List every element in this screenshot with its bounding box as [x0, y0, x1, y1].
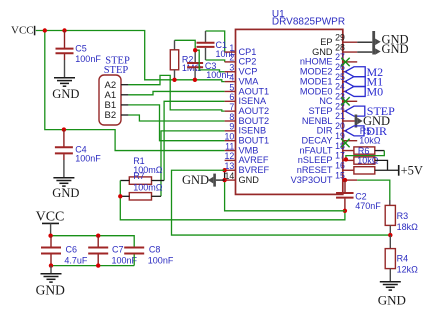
junction C6 bottom [49, 263, 53, 267]
resistor R2 [170, 50, 201, 73]
U1 right pins 15-29 [291, 32, 358, 185]
capacitor C8 lead bottom [133, 255, 135, 266]
net label STEP 1 [105, 56, 130, 67]
svg-text:20: 20 [335, 121, 345, 131]
capacitor C3 [187, 61, 232, 80]
resistor R4 [385, 249, 418, 275]
svg-text:STEP: STEP [104, 65, 129, 76]
svg-text:DIR: DIR [317, 126, 333, 136]
capacitor C4 lead bottom [63, 154, 65, 177]
ground bottom cluster [36, 274, 65, 298]
+5V port [399, 164, 423, 178]
wire sense resistors to ground net [120, 181, 345, 220]
resistor R7 lead left [120, 195, 129, 197]
junction C7 top [96, 234, 100, 238]
svg-text:24: 24 [335, 82, 345, 92]
svg-text:GND: GND [312, 47, 333, 57]
svg-text:MODE1: MODE1 [300, 76, 333, 86]
connector pin A1 [105, 90, 129, 101]
svg-text:18kΩ: 18kΩ [397, 222, 419, 232]
svg-text:nHOME: nHOME [300, 57, 333, 67]
wire nRESET to +5V [375, 169, 399, 171]
wire nSLEEP resistor to +5V net [375, 160, 388, 170]
svg-text:NC: NC [319, 96, 333, 106]
svg-text:8: 8 [229, 112, 234, 122]
VCC port (top left) [11, 25, 35, 37]
svg-text:GND: GND [239, 175, 260, 185]
capacitor C7 [88, 245, 137, 266]
svg-text:CP2: CP2 [239, 57, 257, 67]
svg-text:+5V: +5V [401, 164, 423, 178]
svg-text:BOUT1: BOUT1 [239, 136, 270, 146]
svg-text:M0: M0 [367, 85, 384, 99]
wire B1 to BOUT1 [128, 105, 224, 141]
junction C4 top [62, 127, 66, 131]
svg-text:GND: GND [52, 186, 79, 200]
svg-text:100mΩ: 100mΩ [133, 183, 163, 193]
ground under C5 [52, 78, 79, 101]
svg-text:C8: C8 [149, 245, 161, 255]
svg-text:nSLEEP: nSLEEP [298, 155, 333, 165]
capacitor C1 [197, 40, 237, 59]
resistor R1 label [133, 156, 163, 175]
capacitor C3 lead bottom [194, 68, 196, 80]
junction C7 bottom [96, 263, 100, 267]
svg-text:28: 28 [335, 42, 345, 52]
resistor R4 lead top [389, 235, 391, 249]
resistor R1 lead left [120, 180, 129, 182]
capacitor C2 lead top [344, 180, 346, 192]
svg-text:C7: C7 [112, 245, 124, 255]
port M1 [345, 75, 383, 89]
no-connect NC [341, 97, 349, 105]
connector pin B1 [105, 100, 129, 111]
resistor R1 [129, 177, 151, 184]
svg-text:C5: C5 [75, 44, 87, 54]
wire GND pin14 to C2 bottom [225, 180, 345, 211]
wire R2 top to node [175, 40, 196, 50]
svg-text:25: 25 [335, 72, 345, 82]
capacitor C2 lead bottom [344, 199, 346, 211]
svg-text:CP1: CP1 [239, 47, 257, 57]
junction VCC rail B [62, 28, 66, 32]
svg-text:nRESET: nRESET [297, 165, 333, 175]
svg-text:19: 19 [335, 131, 345, 141]
svg-text:AOUT2: AOUT2 [239, 106, 270, 116]
svg-text:VCP: VCP [239, 67, 258, 77]
capacitor C3 lead top [194, 50, 196, 62]
resistor R1 lead right [152, 180, 165, 182]
resistor R6 (nFAULT pull-up) [354, 146, 375, 156]
capacitor C7 lead top [97, 236, 99, 247]
svg-text:GND: GND [382, 42, 409, 56]
junction R7 left [118, 194, 122, 198]
wire VCC branch to C4 and VMB pin 11 [45, 31, 225, 151]
wire pin28 to GND flag [357, 51, 372, 53]
capacitor C6 [41, 245, 88, 266]
svg-text:GND: GND [182, 173, 209, 187]
connector pin B2 [105, 110, 129, 121]
svg-text:AVREF: AVREF [239, 155, 269, 165]
junction divider [388, 233, 392, 237]
svg-text:DIR: DIR [366, 124, 387, 138]
svg-text:R4: R4 [397, 254, 409, 264]
no-connect nHOME [341, 58, 349, 66]
resistor R5 label [359, 126, 381, 145]
port M2 [345, 65, 383, 79]
capacitor C5 [56, 44, 102, 64]
svg-text:B2: B2 [105, 110, 117, 121]
U1 part name [272, 17, 345, 28]
svg-text:6: 6 [229, 92, 234, 102]
junction R2 bottom [172, 78, 176, 82]
wire ISENA to R1 [164, 101, 225, 180]
svg-text:R6: R6 [358, 146, 370, 156]
wire VCC rail to VMA pin 4 [36, 31, 225, 82]
wire bottom VCC rail [51, 236, 135, 247]
svg-text:NENBL: NENBL [302, 116, 333, 126]
svg-text:MODE0: MODE0 [300, 86, 333, 96]
net label STEP 2 [104, 65, 129, 76]
GND flag pin28 [375, 42, 408, 56]
resistor R3 lead bottom [389, 225, 391, 235]
wire BVREF to divider [172, 170, 391, 235]
wire C1 bottom to CP2 [206, 60, 225, 62]
svg-text:GND: GND [378, 293, 406, 308]
capacitor C6 lead bottom [50, 255, 52, 266]
svg-text:4: 4 [229, 72, 234, 82]
capacitor C6 lead top [50, 236, 52, 247]
ground under C4 [52, 178, 79, 200]
capacitor C8 [124, 245, 174, 266]
svg-text:VCC: VCC [36, 209, 65, 224]
capacitor C4 [55, 145, 101, 164]
capacitor C7 lead bottom [97, 255, 99, 266]
svg-text:7: 7 [229, 102, 234, 112]
svg-text:17: 17 [335, 151, 345, 161]
resistor R2 lead top [174, 40, 176, 50]
svg-text:EP: EP [320, 37, 332, 47]
resistor nRESET series [354, 167, 375, 174]
junction V3P3OUT [343, 178, 347, 182]
svg-text:nFAULT: nFAULT [299, 145, 332, 155]
svg-text:ISENB: ISENB [239, 126, 267, 136]
resistor R7 [129, 193, 151, 200]
resistor R4 lead bottom [389, 269, 391, 282]
GND flag NENBL [355, 114, 390, 128]
wire B2 to BOUT2 [128, 115, 224, 121]
resistor R3 [385, 205, 418, 231]
svg-text:V3P3OUT: V3P3OUT [291, 175, 333, 185]
wire A2 to AOUT2 [128, 75, 224, 111]
svg-text:12: 12 [225, 151, 235, 161]
wire V3P3OUT to R3 [357, 180, 390, 205]
capacitor C2 [336, 192, 381, 211]
svg-text:9: 9 [229, 122, 234, 132]
svg-text:21: 21 [335, 111, 345, 121]
ground under R4 [378, 282, 406, 308]
junction C2 bottom [343, 209, 347, 213]
svg-text:470nF: 470nF [355, 201, 381, 211]
svg-text:GND: GND [36, 283, 65, 298]
junction GND pin14 [222, 178, 226, 182]
capacitor C5 lead top [64, 31, 66, 49]
svg-text:10: 10 [225, 132, 235, 142]
svg-text:DECAY: DECAY [302, 136, 333, 146]
junction nSLEEP [344, 157, 348, 161]
GND flag pin14 [182, 173, 225, 187]
svg-text:5: 5 [229, 82, 234, 92]
resistor R7 lead right [152, 195, 162, 197]
U1 left pins 1-14 [225, 43, 270, 185]
wire A1 to AOUT1 [128, 91, 224, 94]
capacitor C1 lead top [205, 31, 207, 42]
svg-text:29: 29 [335, 32, 345, 42]
svg-text:R3: R3 [397, 211, 409, 221]
svg-text:BOUT2: BOUT2 [239, 116, 270, 126]
port STEP [345, 104, 395, 118]
connector pin A2 [105, 80, 129, 91]
svg-text:100nF: 100nF [75, 153, 101, 163]
svg-text:GND: GND [52, 87, 79, 101]
resistor R7 label [133, 171, 163, 193]
svg-text:2: 2 [229, 53, 234, 63]
wire BVREF tie [224, 170, 226, 180]
svg-text:VMB: VMB [239, 145, 259, 155]
svg-text:VCC: VCC [11, 25, 34, 37]
wire EP to GND flag [357, 41, 372, 43]
svg-text:DRV8825PWPR: DRV8825PWPR [272, 17, 345, 28]
resistor nSLEEP pull-up [354, 156, 379, 166]
svg-text:12kΩ: 12kΩ [397, 264, 419, 274]
svg-text:BVREF: BVREF [239, 165, 270, 175]
wire C1 top to CP1 [206, 31, 225, 52]
svg-text:1: 1 [229, 43, 234, 53]
capacitor C5 lead bottom [64, 54, 66, 77]
wire R6 to nSLEEP node [346, 151, 384, 161]
capacitor C4 lead top [63, 130, 65, 147]
wire ISENB to R7 [161, 131, 225, 196]
svg-text:100nF: 100nF [148, 256, 174, 266]
svg-text:11: 11 [225, 141, 234, 151]
op-amp U1 DRV8825PWPR body [236, 29, 343, 194]
no-connect DECAY [341, 139, 349, 147]
svg-text:16: 16 [335, 160, 345, 170]
port M0 [345, 85, 383, 99]
svg-text:100nF: 100nF [75, 54, 101, 64]
svg-text:AOUT1: AOUT1 [239, 86, 270, 96]
GND flag EP [372, 31, 408, 55]
svg-text:VMA: VMA [239, 76, 260, 86]
U1 reference [272, 9, 285, 20]
wire bottom GND rail [51, 265, 134, 267]
svg-text:STEP: STEP [309, 106, 333, 116]
junction VCP node [193, 48, 197, 52]
port DIR [345, 124, 387, 138]
capacitor C1 lead bottom [205, 48, 207, 60]
junction C3 bottom [193, 78, 197, 82]
svg-text:4.7uF: 4.7uF [64, 256, 88, 266]
junction C6 top [48, 234, 52, 238]
svg-text:ISENA: ISENA [239, 96, 267, 106]
junction BVREF [222, 168, 226, 172]
junction VCC rail A [43, 28, 47, 32]
svg-text:MODE2: MODE2 [300, 67, 333, 77]
resistor R2 lead bottom [174, 70, 176, 80]
VCC port (bottom) [36, 209, 65, 235]
connector P1 body [99, 75, 121, 125]
svg-text:C6: C6 [66, 245, 78, 255]
svg-text:R7: R7 [133, 171, 145, 181]
bottom cluster ground lead [50, 266, 52, 274]
wire VCP [195, 50, 224, 72]
svg-text:3: 3 [229, 63, 234, 73]
